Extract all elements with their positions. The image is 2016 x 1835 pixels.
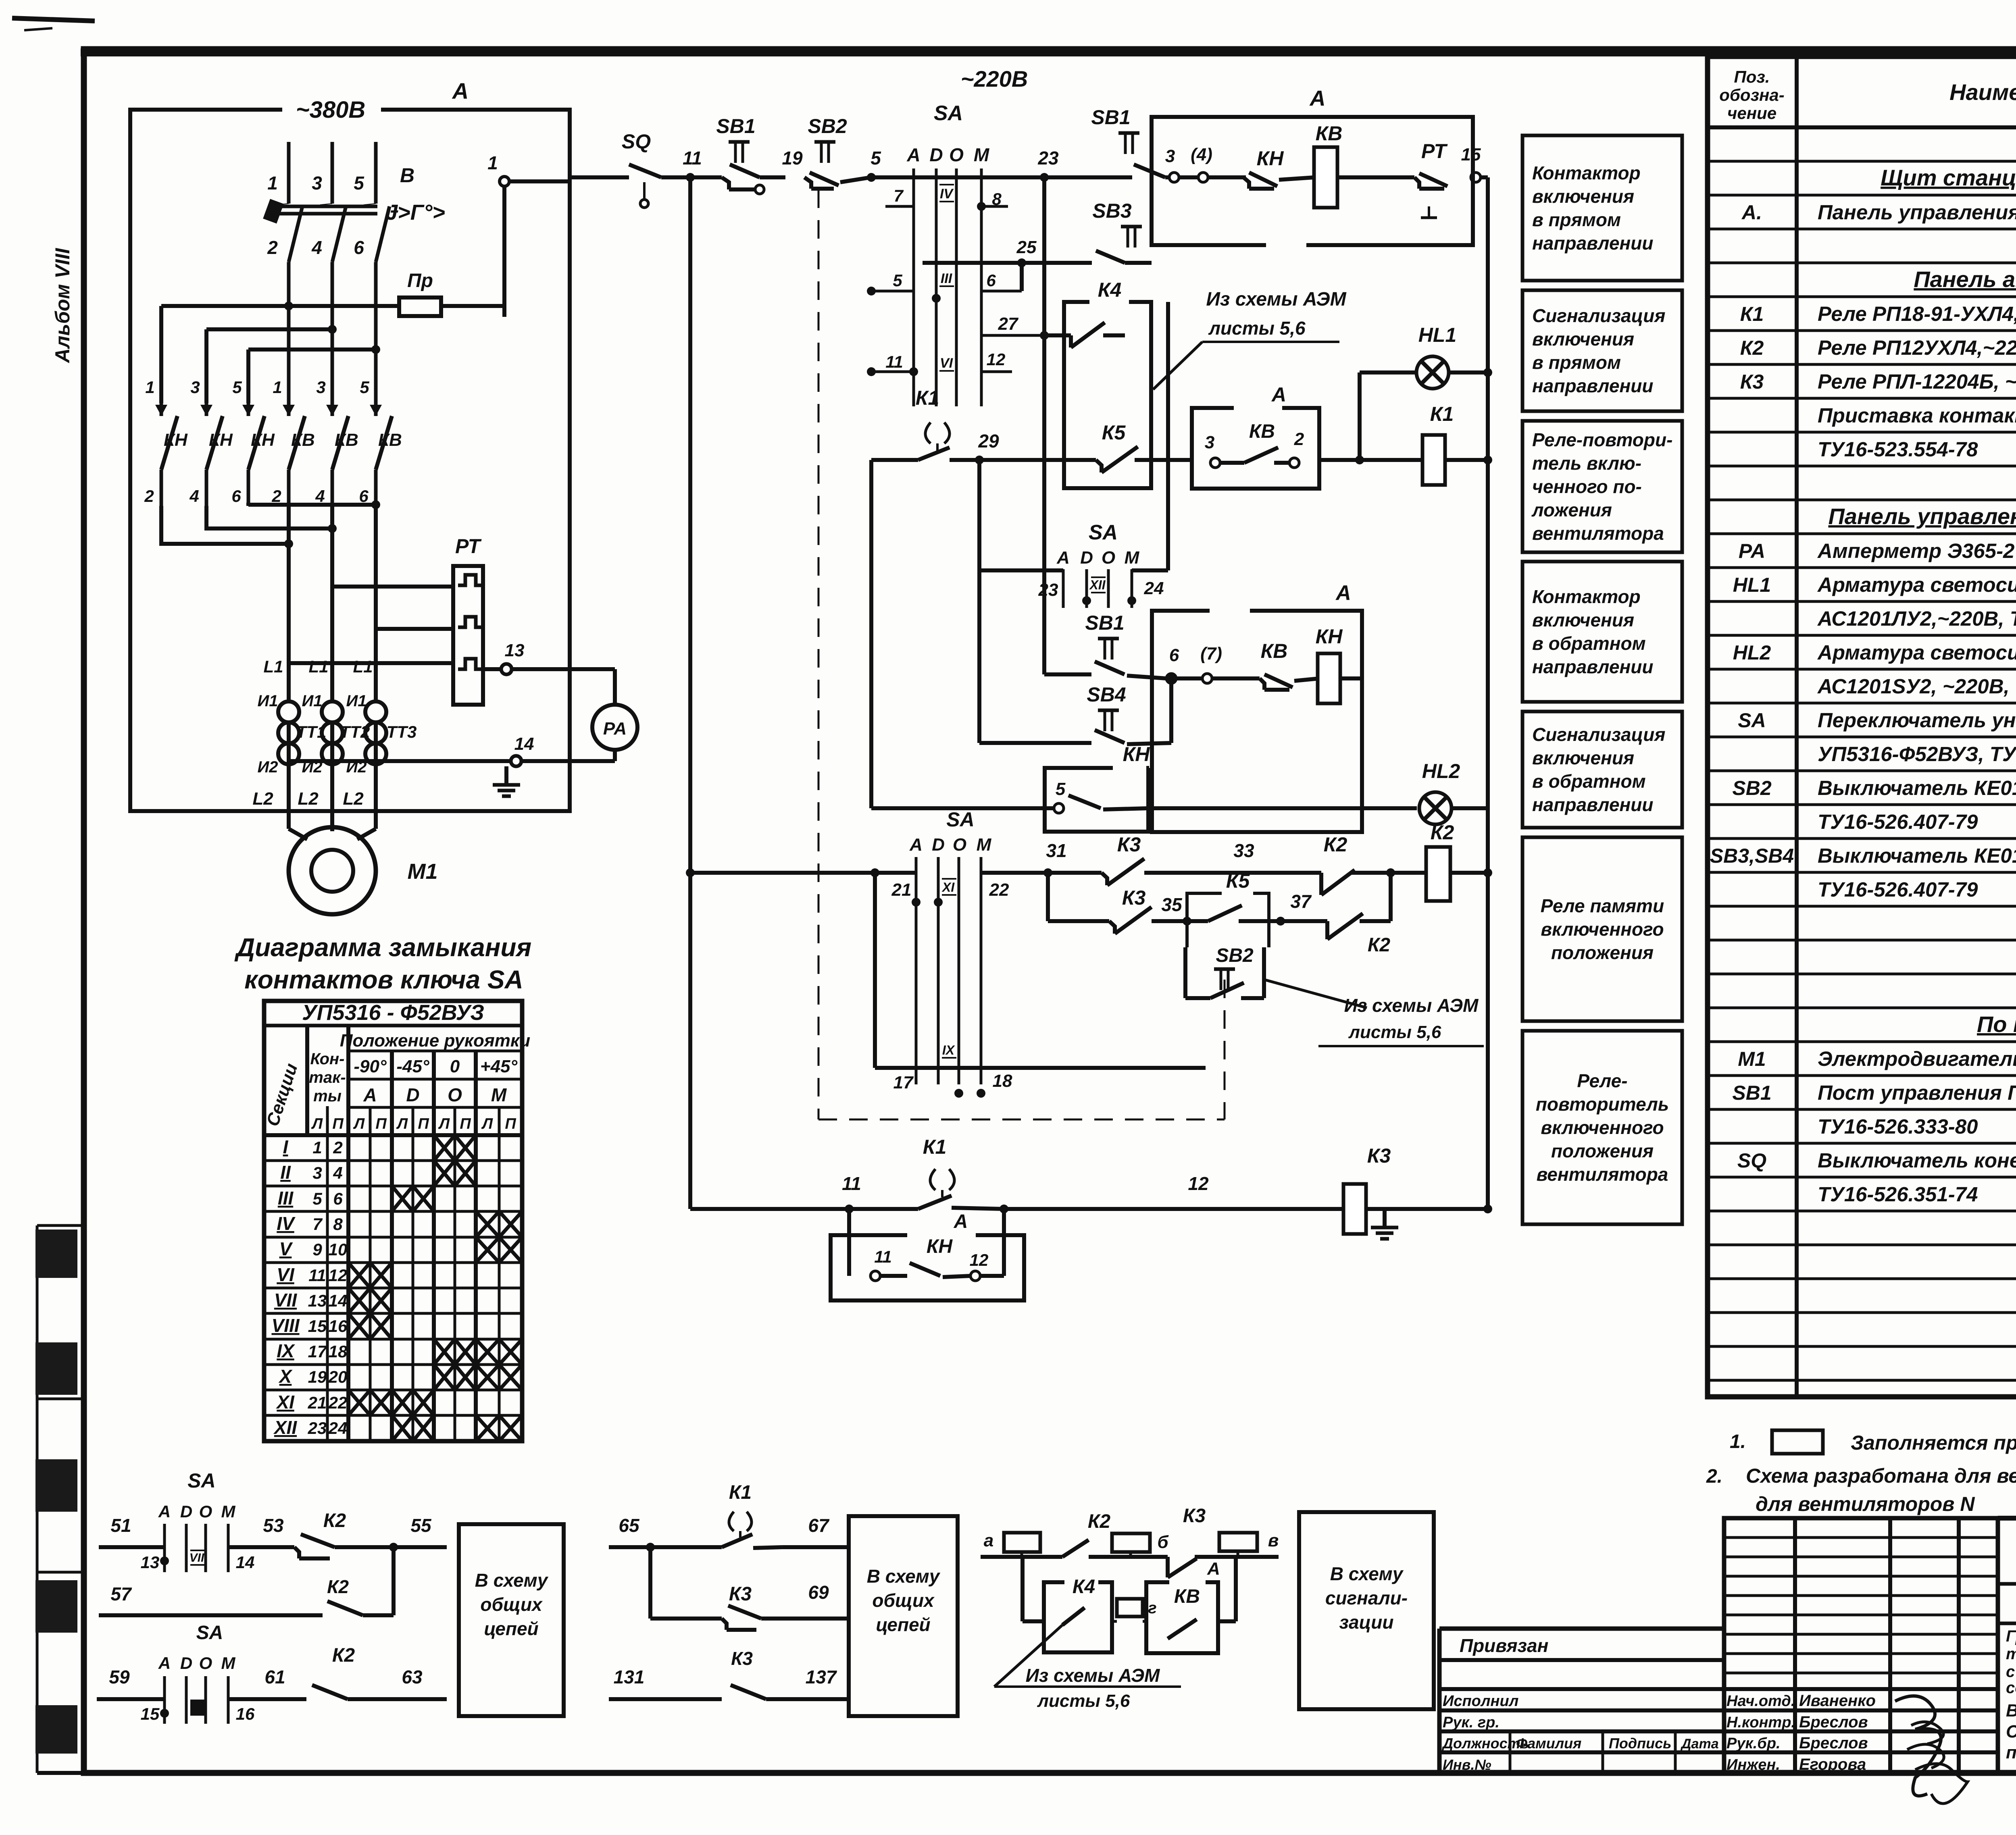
svg-text:69: 69 (808, 1582, 829, 1603)
svg-text:6: 6 (231, 487, 241, 506)
svg-text:положения: положения (1551, 942, 1654, 963)
svg-text:3: 3 (312, 1163, 322, 1182)
SA group1 branch 7-8 (885, 186, 1008, 211)
svg-text:22: 22 (989, 880, 1009, 900)
svg-text:Иваненко: Иваненко (1799, 1692, 1876, 1710)
svg-text:И1: И1 (302, 692, 322, 710)
svg-text:III: III (278, 1188, 294, 1209)
frag3 wire 65 K1 67 (609, 1482, 847, 1552)
frag1 SA headers (158, 1502, 236, 1521)
svg-text:-45°: -45° (396, 1057, 429, 1076)
svg-text:тель вклю-: тель вклю- (1532, 453, 1641, 474)
ammeter PA (592, 669, 637, 761)
svg-text:Исполнил: Исполнил (1443, 1693, 1518, 1710)
svg-text:К2: К2 (1431, 821, 1454, 844)
svg-text:А: А (1309, 86, 1326, 110)
spec row 18: SA (1738, 709, 2016, 732)
contact terminal numbers bottom (144, 487, 369, 506)
spec row 15: АС1201ЛУ2,~220В, Т (1817, 607, 2016, 630)
frag2 wire 59 (97, 1666, 165, 1699)
SA diagram row III (264, 1186, 522, 1211)
spec row 32: ТУ16-526.351-74 (1818, 1183, 2016, 1206)
spec row 6: К1 (1740, 302, 2016, 325)
svg-text:направлении: направлении (1532, 375, 1654, 396)
svg-text:О: О (949, 144, 964, 165)
contact KH interlock (1243, 147, 1314, 189)
contactor main contacts KH / KV (161, 403, 402, 506)
KV aux contact 3-2 (1205, 421, 1304, 468)
svg-text:в прямом: в прямом (1532, 352, 1621, 373)
svg-text:в обратном: в обратном (1532, 633, 1646, 654)
SB1 forward button (1091, 106, 1169, 177)
K4-K5 mechanism box (1064, 302, 1151, 488)
frag1 SA columns (141, 1524, 255, 1572)
svg-text:SA: SA (196, 1622, 223, 1644)
svg-text:SB2: SB2 (1216, 945, 1254, 966)
svg-text:14: 14 (236, 1553, 255, 1572)
SA diagram row IX (264, 1339, 522, 1365)
svg-text:XI: XI (941, 880, 955, 895)
svg-text:67: 67 (808, 1515, 830, 1536)
svg-text:4: 4 (333, 1163, 342, 1182)
svg-text:X: X (278, 1366, 293, 1387)
svg-text:повторитель: повторитель (1536, 1094, 1669, 1115)
K1 line (11-12) (690, 873, 1344, 1213)
svg-text:L2: L2 (343, 789, 364, 809)
svg-text:57: 57 (110, 1583, 132, 1604)
svg-text:Инжен.: Инжен. (1727, 1756, 1780, 1773)
svg-text:65: 65 (619, 1515, 640, 1536)
svg-text:19: 19 (782, 148, 803, 169)
svg-text:контактов ключа SA: контактов ключа SA (244, 965, 523, 994)
svg-text:направлении: направлении (1532, 794, 1654, 815)
svg-text:Электродвигатель ВАСО15-23-34У: Электродвигатель ВАСО15-23-34У1 (1818, 1047, 2016, 1070)
drawing name cell (1998, 1694, 2016, 1762)
memory lower branch (1048, 873, 1109, 921)
svg-text:III: III (941, 271, 953, 286)
svg-text:11: 11 (874, 1247, 892, 1266)
svg-text:А.: А. (1741, 201, 1762, 224)
svg-text:Бреслов: Бреслов (1799, 1713, 1868, 1731)
svg-text:Реле памяти: Реле памяти (1541, 895, 1664, 916)
svg-text:SQ: SQ (622, 130, 651, 153)
box to signal circuits (1299, 1512, 1434, 1709)
svg-text:D: D (929, 144, 943, 165)
spec row 29: SB1 (1732, 1081, 2016, 1104)
pushbutton SB2 remote contact (1185, 921, 1264, 998)
svg-text:Поз.: Поз. (1734, 67, 1770, 86)
svg-text:SB1: SB1 (1091, 106, 1130, 129)
SA group3 markers XI IX (941, 879, 956, 1058)
svg-text:чение: чение (1727, 104, 1776, 123)
frag4 KV box contact (1146, 1582, 1218, 1653)
spec row 16: HL2 (1733, 641, 2016, 664)
svg-text:Фамилия: Фамилия (1516, 1735, 1581, 1752)
SB4 left riser (979, 570, 980, 743)
breaker lower labels 2 4 6 (267, 237, 364, 258)
svg-text:Л: Л (311, 1115, 323, 1132)
svg-text:ТУ16-526.407-79: ТУ16-526.407-79 (1818, 878, 1978, 901)
svg-text:А: А (363, 1084, 377, 1105)
svg-text:О: О (448, 1084, 462, 1105)
frag2 SA columns (141, 1676, 255, 1724)
svg-text:Сигнализация: Сигнализация (1532, 724, 1665, 745)
svg-text:1: 1 (145, 378, 154, 397)
function box 6: Реле памяти (1522, 837, 1682, 1021)
SA diagram title (234, 933, 531, 994)
svg-text:L1: L1 (263, 657, 283, 676)
svg-text:Альбом VIII: Альбом VIII (51, 248, 74, 364)
svg-text:XII: XII (1089, 578, 1106, 592)
dashed SB2 linkage (818, 980, 1225, 1119)
svg-text:Контактор: Контактор (1532, 162, 1641, 183)
contactor coil KV (1314, 147, 1337, 208)
left binding margin marks (35, 1225, 84, 1773)
svg-text:К3: К3 (1117, 833, 1141, 856)
node 11 (683, 148, 702, 182)
svg-text:11: 11 (683, 148, 702, 169)
spec row 20: SB2 (1732, 759, 2016, 799)
svg-text:вентилятора: вентилятора (1537, 1164, 1668, 1185)
scan smudge top-left (12, 18, 95, 30)
svg-text:В схему: В схему (475, 1570, 549, 1591)
svg-text:1: 1 (267, 173, 278, 193)
svg-text:13: 13 (308, 1291, 327, 1310)
svg-text:5: 5 (893, 271, 902, 290)
spec row 31: SQ (1737, 1149, 2016, 1172)
SB4 button (979, 674, 1176, 744)
svg-text:Вентилятор.: Вентилятор. (2006, 1701, 2016, 1721)
spec table row lines (1708, 161, 2016, 1380)
frag4 b terminal (1112, 1532, 1169, 1557)
svg-text:15: 15 (1461, 145, 1481, 164)
svg-text:SB3: SB3 (1092, 200, 1131, 222)
svg-text:Сигнализация: Сигнализация (1532, 305, 1665, 326)
spec row 14: HL1 (1733, 573, 2016, 596)
relay coil K2 (1386, 821, 1492, 901)
svg-text:2: 2 (267, 237, 278, 258)
svg-text:SA: SA (934, 102, 963, 125)
SA group1 branch 27 (981, 314, 1049, 340)
svg-text:27: 27 (998, 314, 1019, 334)
svg-text:КН: КН (251, 430, 275, 450)
object name cell (2006, 1623, 2016, 1773)
motor M1 (289, 827, 438, 914)
svg-text:В схему: В схему (1330, 1563, 1404, 1584)
svg-text:D: D (180, 1654, 192, 1673)
svg-text:18: 18 (329, 1342, 348, 1361)
contact terminal numbers top (145, 378, 369, 397)
svg-text:А: А (158, 1502, 171, 1521)
svg-text:6: 6 (354, 237, 364, 258)
svg-text:D: D (932, 835, 945, 855)
svg-text:14: 14 (329, 1291, 348, 1310)
svg-text:ТТ3: ТТ3 (387, 722, 417, 741)
svg-text:SA: SA (1738, 709, 1766, 732)
svg-text:РТ: РТ (1421, 140, 1448, 162)
SA diagram row VII (264, 1288, 522, 1313)
phase arrow heads above contacts (155, 405, 382, 416)
svg-text:XI: XI (275, 1392, 295, 1413)
svg-text:Арматура светосигнальная: Арматура светосигнальная (1817, 641, 2016, 664)
svg-text:зации: зации (1339, 1612, 1394, 1633)
terminal 15 (1461, 145, 1488, 182)
wire 11 to SB1 (690, 175, 722, 179)
svg-text:51: 51 (110, 1515, 131, 1536)
svg-text:3: 3 (1205, 433, 1214, 452)
spec row 9: Приставка контактн (1818, 404, 2016, 427)
svg-text:К2: К2 (1088, 1511, 1111, 1532)
SA diagram row I (264, 1135, 522, 1161)
spec table header texts (1708, 67, 2016, 127)
lamp HL1 branch (1355, 324, 1492, 464)
svg-text:КВ: КВ (1261, 640, 1288, 662)
current transformer TT3 (365, 701, 417, 764)
svg-text:SA: SA (1089, 521, 1118, 544)
svg-text:Положение рукоятки: Положение рукоятки (340, 1031, 530, 1051)
from AEM note (lower) (1264, 980, 1484, 1046)
svg-text:К2: К2 (327, 1576, 349, 1597)
breaker terminal labels 1 3 5 (267, 164, 414, 193)
svg-text:~220В: ~220В (961, 66, 1028, 92)
contact K2 (holding) (1321, 833, 1395, 895)
SA group2 headers (1056, 548, 1140, 568)
svg-text:SB3,SB4: SB3,SB4 (1710, 845, 1794, 867)
svg-text:О: О (1102, 548, 1115, 568)
svg-text:55: 55 (410, 1515, 432, 1536)
svg-text:L2: L2 (252, 789, 273, 809)
svg-text:Арматура светосигнальная: Арматура светосигнальная (1817, 573, 2016, 596)
function box 5: Сигнализация (1522, 712, 1682, 828)
svg-text:13: 13 (505, 641, 525, 660)
svg-text:6: 6 (1169, 645, 1179, 665)
svg-text:направлении: направлении (1532, 233, 1654, 254)
SA diagram row II (264, 1161, 522, 1186)
frag3 131 K3 137 (609, 1648, 847, 1699)
svg-text:131: 131 (614, 1666, 645, 1687)
svg-text:SB2: SB2 (808, 115, 847, 137)
svg-text:ложения: ложения (1531, 499, 1612, 520)
SA group3 label (946, 808, 974, 831)
svg-text:2.: 2. (1706, 1466, 1722, 1487)
contact KV interlock (reverse) (1260, 640, 1319, 690)
svg-text:53: 53 (263, 1515, 284, 1536)
svg-text:12: 12 (1188, 1173, 1209, 1194)
svg-text:По месту: По месту (1977, 1011, 2016, 1037)
svg-text:РА: РА (1739, 540, 1765, 562)
svg-text:~380В: ~380В (296, 97, 366, 123)
right bus riser from 15 (1487, 177, 1488, 185)
svg-text:31: 31 (1046, 840, 1066, 861)
svg-text:11: 11 (885, 352, 903, 371)
feeders staircase to KH contacts (161, 302, 380, 403)
SA group2 terminals 23 24 (1038, 578, 1164, 605)
primary wires through TT (289, 506, 376, 831)
spec row 27: По месту (1977, 1011, 2016, 1037)
spec row 12: Панель управления (1828, 503, 2016, 529)
svg-text:цепей: цепей (876, 1614, 930, 1635)
svg-text:Привязан: Привязан (1460, 1635, 1548, 1656)
frag4 left riser (1023, 1557, 1044, 1621)
frag1 wire 51 (99, 1515, 165, 1547)
svg-text:5: 5 (354, 173, 364, 193)
svg-text:включения: включения (1532, 610, 1634, 630)
SA diagram row XII (273, 1415, 522, 1441)
svg-text:принципиальная: принципиальная (2006, 1743, 2016, 1762)
svg-text:17: 17 (893, 1073, 914, 1092)
svg-text:КН: КН (209, 430, 233, 450)
spec row 5: Панель автоматики (1914, 266, 2016, 292)
SB3 line left end (871, 206, 923, 263)
function box 4: Контактор (1522, 562, 1682, 702)
frag2 headers (158, 1654, 236, 1673)
svg-text:К2: К2 (1740, 337, 1764, 359)
svg-text:SB1: SB1 (1732, 1082, 1771, 1104)
svg-text:КВ: КВ (335, 430, 358, 450)
svg-text:VII: VII (274, 1290, 297, 1311)
svg-text:включения: включения (1532, 329, 1634, 350)
svg-text:Контактор: Контактор (1532, 586, 1641, 607)
svg-text:в: в (1268, 1531, 1279, 1550)
svg-text:листы 5,6: листы 5,6 (1348, 1022, 1441, 1042)
KV label over coil (1316, 122, 1343, 145)
SA type header (264, 1001, 522, 1026)
svg-text:HL1: HL1 (1418, 324, 1456, 346)
svg-text:HL1: HL1 (1733, 574, 1771, 596)
svg-text:Подпись: Подпись (1609, 1735, 1672, 1752)
svg-text:Выключатель КЕ011УЗ исп.4: Выключатель КЕ011УЗ исп.4 (1818, 844, 2016, 867)
spec row 2: Щит станций управл (1881, 165, 2016, 190)
pushbutton SB2 dashed-linked (804, 115, 871, 189)
spec row 13: РА (1739, 539, 2016, 562)
svg-text:61: 61 (264, 1666, 285, 1687)
svg-text:15: 15 (308, 1317, 327, 1336)
svg-text:КН: КН (1257, 147, 1284, 170)
spec row 23: ТУ16-526.407-79 (1818, 878, 2016, 901)
svg-text:А: А (954, 1211, 968, 1232)
svg-text:II: II (280, 1162, 291, 1183)
svg-text:HL2: HL2 (1733, 641, 1771, 664)
node 13 (483, 641, 615, 674)
svg-text:SB1: SB1 (1085, 612, 1124, 634)
thermal relay PT body (453, 535, 483, 705)
svg-text:М: М (221, 1654, 236, 1673)
svg-text:Н.контр.: Н.контр. (1727, 1714, 1795, 1731)
svg-text:В схему: В схему (867, 1566, 941, 1587)
SA switch label (group 1) (934, 102, 963, 125)
svg-text:КН: КН (1123, 743, 1150, 766)
title block outer (1439, 1629, 1724, 1773)
spec table outer (1708, 56, 2016, 1397)
svg-text:а: а (984, 1531, 993, 1550)
riser 25 to SB3 line (1016, 237, 1037, 291)
svg-text:D: D (180, 1502, 192, 1521)
svg-text:Панель управления и сигнализац: Панель управления и сигнализации (1828, 503, 2016, 529)
svg-text:А: А (1271, 383, 1286, 406)
approval rows (1724, 1689, 1998, 1773)
svg-text:включения: включения (1532, 186, 1634, 207)
panel A enclosure (control fwd) (1152, 86, 1473, 245)
svg-text:листы 5,6: листы 5,6 (1037, 1691, 1130, 1711)
svg-text:8: 8 (333, 1215, 343, 1234)
svg-text:1: 1 (312, 1138, 322, 1157)
vertical 23 (1037, 148, 1059, 570)
SA group1 contact columns (914, 169, 981, 406)
svg-text:Нач.отд.: Нач.отд. (1727, 1693, 1795, 1710)
doc number cell (1998, 1518, 2016, 1584)
album label (51, 248, 74, 364)
svg-text:IV: IV (277, 1213, 296, 1234)
terminals 6 (7) (1166, 644, 1260, 683)
svg-text:-90°: -90° (354, 1057, 387, 1076)
svg-text:24: 24 (328, 1419, 348, 1438)
svg-text:Из схемы АЭМ: Из схемы АЭМ (1344, 995, 1479, 1016)
svg-text:VI: VI (277, 1264, 295, 1285)
svg-text:Схема электрическая: Схема электрическая (2006, 1722, 2016, 1741)
svg-text:23: 23 (1038, 580, 1058, 600)
svg-text:HL2: HL2 (1422, 760, 1460, 782)
svg-text:РА: РА (603, 719, 627, 739)
svg-text:Щит станций управления: Щит станций управления (1881, 165, 2016, 190)
svg-text:SB4: SB4 (1087, 683, 1126, 706)
node 1 riser (487, 152, 570, 317)
SA group1 branch 11-12 (867, 350, 1012, 376)
svg-text:33: 33 (1233, 840, 1254, 861)
svg-text:14: 14 (514, 734, 534, 754)
svg-text:ТУ16-526.407-79: ТУ16-526.407-79 (1818, 810, 1978, 833)
svg-text:А: А (452, 78, 469, 104)
SA group2 columns (1063, 569, 1132, 608)
svg-text:Панель автоматики: Панель автоматики (1914, 266, 2016, 292)
svg-text:К2: К2 (1368, 934, 1391, 956)
svg-text:М: М (974, 144, 990, 165)
left grid rows (1439, 1689, 1724, 1773)
svg-text:Дата: Дата (1680, 1736, 1719, 1752)
svg-text:Реле-повтори-: Реле-повтори- (1532, 429, 1672, 450)
svg-text:6: 6 (986, 271, 996, 290)
second band (1998, 1622, 2016, 1625)
frag2 SA label (196, 1622, 223, 1644)
svg-text:11: 11 (842, 1173, 861, 1194)
svg-text:1: 1 (273, 378, 282, 397)
svg-text:Л: Л (396, 1115, 408, 1132)
svg-text:К5: К5 (1102, 421, 1126, 444)
svg-text:ТУ16-523.554-78: ТУ16-523.554-78 (1818, 438, 1978, 461)
contactor coil KH (1316, 625, 1362, 703)
svg-text:И2: И2 (257, 758, 278, 776)
relay coil K1 (1422, 403, 1492, 485)
svg-text:А: А (909, 835, 923, 855)
svg-text:19: 19 (308, 1367, 327, 1386)
svg-text:К5: К5 (1226, 870, 1250, 892)
svg-text:(4): (4) (1191, 145, 1212, 164)
function box 1: Контактор (1522, 135, 1682, 281)
svg-text:VIII: VIII (271, 1315, 300, 1336)
svg-text:Из схемы АЭМ: Из схемы АЭМ (1026, 1665, 1160, 1686)
svg-text:Схема разработана для венти: Схема разработана для вентилятора N (1746, 1465, 2016, 1487)
svg-text:6: 6 (359, 487, 369, 506)
main control line with SQ (570, 175, 621, 179)
svg-text:К2: К2 (332, 1645, 355, 1666)
right bus vertical (1486, 177, 1490, 1209)
svg-text:К3: К3 (731, 1648, 753, 1669)
SA diagram row X (264, 1365, 522, 1390)
svg-text:+45°: +45° (480, 1057, 518, 1076)
from AEM scheme note (upper) (1153, 289, 1347, 389)
contact K3 lower (1109, 886, 1191, 934)
frag4 AEM note (994, 1625, 1181, 1711)
spec row 10: ТУ16-523.554-78 (1818, 438, 2016, 461)
